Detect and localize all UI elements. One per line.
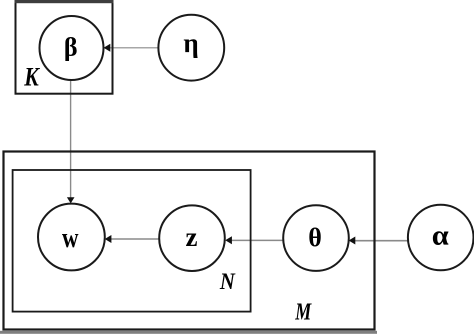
node w xyxy=(38,204,105,271)
arrowhead into z xyxy=(225,236,232,244)
svg-text:M: M xyxy=(295,300,313,326)
arrowhead into w from z xyxy=(105,235,112,243)
svg-text:w: w xyxy=(62,223,79,254)
svg-text:η: η xyxy=(183,28,198,58)
svg-text:θ: θ xyxy=(308,223,322,252)
node eta xyxy=(158,15,224,81)
node beta xyxy=(40,16,104,80)
plate K xyxy=(15,0,114,94)
node alpha xyxy=(408,205,474,271)
wire alpha to theta xyxy=(355,240,409,242)
arrowhead into theta xyxy=(349,237,356,245)
wire z to w xyxy=(111,238,160,240)
shadow strip xyxy=(0,331,377,334)
svg-text:K: K xyxy=(23,62,40,91)
svg-text:z: z xyxy=(186,222,198,252)
node theta xyxy=(283,205,349,271)
svg-text:α: α xyxy=(432,221,449,252)
arrowhead into w xyxy=(67,197,75,203)
wire eta to beta xyxy=(110,47,159,49)
plate M xyxy=(4,152,375,330)
svg-text:N: N xyxy=(219,269,236,294)
wire beta to w xyxy=(70,80,72,198)
node z xyxy=(159,205,225,271)
wire theta to z xyxy=(231,239,283,241)
arrowhead into beta xyxy=(104,44,111,52)
plate N xyxy=(13,170,251,312)
svg-text:β: β xyxy=(64,32,78,61)
